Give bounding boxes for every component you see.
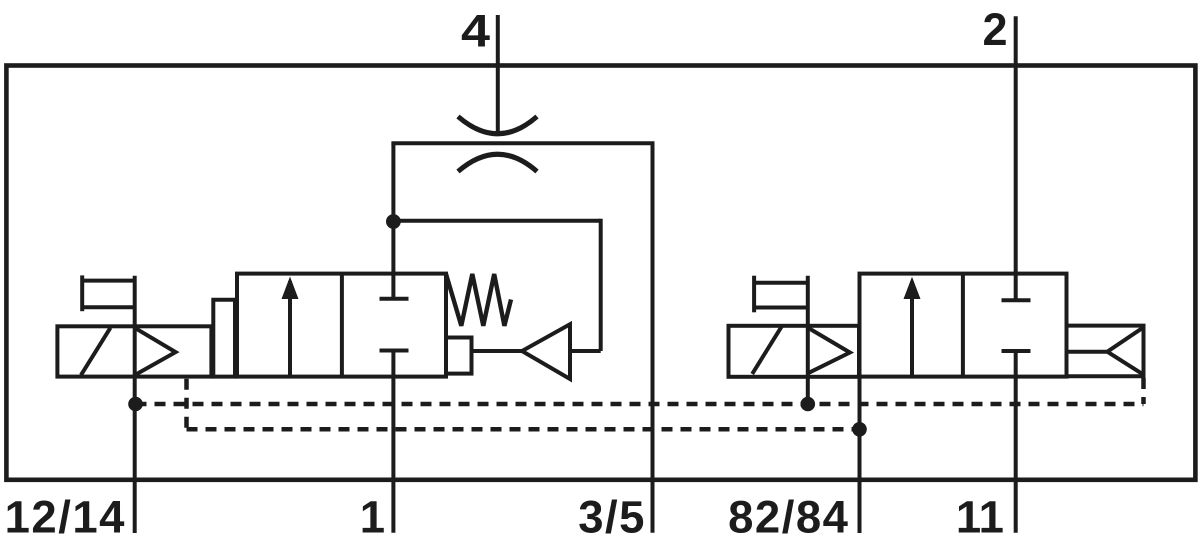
manual override box bottom [82,305,135,309]
pilot pressure triangle Z1 [522,324,570,379]
node junction dot [386,214,401,229]
port 2 line [1014,16,1018,300]
svg-text:11: 11 [956,492,1004,543]
wire: 12/14 vertical line [133,276,137,533]
manual override box Y2 top [754,281,808,285]
valve V1 flow arrow [288,281,292,377]
wire: bottom edge under step box [211,375,237,379]
svg-text:1: 1 [360,492,385,543]
pilot dashed line 82 branch vertical [184,379,189,430]
svg-text:82/84: 82/84 [728,492,849,543]
assembly enclosure frame [6,66,1195,480]
solenoid Y2 coil slash [752,327,781,374]
port 4 supply line [496,15,500,133]
wire: solenoid Y2 vertical line [806,276,810,404]
solenoid Y1 coil slash [81,328,110,375]
junction dot solenoid Y2 [801,397,816,412]
valve V1 blocked port T (bottom) [380,349,409,353]
wire: pilot loop to triangle [570,349,601,353]
svg-text:3/5: 3/5 [578,492,646,543]
pilot connection box [446,338,472,374]
valve V2 blocked port T (bottom) [1002,349,1031,353]
svg-text:2: 2 [982,4,1007,55]
wire: port 11 line [1014,351,1018,533]
solenoid Y2 pilot triangle [808,328,850,374]
pilot stage step box [213,300,235,377]
valve V2 position divider [961,274,965,377]
wire: port 1 line [391,351,395,533]
exhaust symbol mid line [1067,350,1108,354]
pilot dashed line 1 riser at exhaust [1141,378,1146,404]
wire: node branch vertical into valve V1 [391,143,395,298]
valve V2 body [860,274,1067,377]
nozzle upper arc (air gap) [458,117,537,134]
manual override box top [82,279,135,283]
wire: 3/5 riser [651,143,655,532]
return spring of valve V1 [446,274,511,326]
pilot dashed line 2 horizontal [187,427,860,432]
wire: pilot loop horizontal [393,219,600,223]
wire: triangle to pilot box [472,349,523,353]
svg-text:12/14: 12/14 [5,492,126,543]
solenoid Y1 pilot triangle [135,328,176,375]
manual override tick Y2 [752,276,756,313]
junction dot on 12/14 line [128,397,143,412]
manual override tick [80,275,84,311]
nozzle lower arc (air gap) [458,154,537,171]
manual override box Y2 bottom [754,306,808,310]
valve V2 flow arrow [910,281,914,376]
valve V1 body [237,274,446,377]
wire: pilot loop vertical [599,219,603,351]
valve V1 position divider [340,274,344,377]
valve V2 blocked port T (top) [1002,298,1031,302]
svg-text:4: 4 [461,6,490,57]
pilot dashed line 1 horizontal [136,402,1144,407]
wire: 82/84 vertical line [858,377,862,533]
exhaust symbol triangle [1107,327,1143,374]
wire: top loop horizontal (node to 3/5 riser) [391,141,654,145]
solenoid Y2 coil box [729,326,860,377]
exhaust symbol box [1067,326,1144,379]
solenoid Y1 coil box [57,326,211,376]
junction dot on 82/84 line [852,422,867,437]
valve V1 blocked port T (top) [380,297,409,301]
